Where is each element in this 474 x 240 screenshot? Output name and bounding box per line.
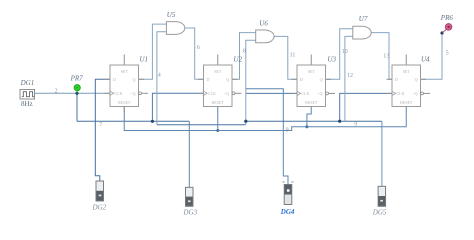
svg-text:SET: SET [121, 69, 129, 74]
wire U6 out to U3 D [274, 36, 297, 79]
svg-text:11: 11 [290, 52, 296, 58]
wire DG4 branch [246, 89, 288, 185]
svg-text:DG2: DG2 [92, 204, 107, 212]
svg-text:U6: U6 [259, 19, 268, 27]
svg-text:4: 4 [158, 73, 161, 79]
svg-text:CLK: CLK [208, 91, 216, 96]
svg-text:U2: U2 [234, 56, 243, 64]
wire U4 clock tap [340, 93, 392, 121]
svg-text:~Q: ~Q [224, 91, 229, 96]
wire U4 Q riser to PR6 [421, 33, 443, 79]
svg-text:RESET: RESET [118, 100, 131, 105]
svg-text:Q: Q [415, 77, 418, 82]
svg-text:~Q: ~Q [130, 91, 135, 96]
svg-text:D: D [207, 77, 210, 82]
svg-text:DG5: DG5 [372, 209, 387, 217]
wire PR7 drop [76, 93, 78, 121]
svg-text:CLK: CLK [302, 91, 310, 96]
wire U5 out to U2 D [185, 28, 204, 79]
svg-text:PR6: PR6 [440, 14, 454, 22]
junction node A2 start [244, 120, 247, 123]
wire bus B (reset bus) [124, 107, 406, 131]
svg-text:CLK: CLK [397, 91, 405, 96]
svg-text:6: 6 [197, 45, 200, 51]
svg-text:CLK: CLK [115, 91, 123, 96]
svg-text:D: D [113, 77, 116, 82]
svg-text:~Q: ~Q [412, 91, 417, 96]
svg-text:DG4: DG4 [280, 208, 295, 216]
op D flip-flop U1 [105, 55, 149, 113]
svg-text:Q: Q [133, 77, 136, 82]
svg-text:RESET: RESET [212, 100, 225, 105]
svg-text:DG1: DG1 [20, 79, 35, 87]
wire clock main DG1 to U1 CLK [35, 92, 111, 94]
wire U2 reset stub [217, 107, 219, 131]
wire U7 in2 riser [345, 36, 353, 121]
probe PR7 [70, 75, 84, 93]
svg-text:U4: U4 [421, 56, 430, 64]
indicator DG3 [183, 187, 198, 216]
wire U7 out to U4 D [371, 33, 392, 80]
junction node clock tap U2 [151, 120, 154, 123]
gate AND U6 [256, 19, 274, 43]
svg-text:~Q: ~Q [317, 91, 322, 96]
svg-text:DG3: DG3 [183, 209, 198, 217]
svg-text:D: D [395, 77, 398, 82]
svg-text:U7: U7 [359, 15, 368, 23]
indicator DG5 [372, 186, 387, 216]
junction node clock tap U4 [338, 120, 341, 123]
svg-text:2: 2 [55, 89, 58, 95]
probe PR6 [440, 14, 454, 33]
wire U1 Q riser to U5 in1 [139, 24, 167, 79]
svg-text:PR7: PR7 [70, 75, 84, 83]
wire U2 clock tap [152, 93, 203, 121]
svg-text:U1: U1 [140, 56, 149, 64]
svg-text:SET: SET [308, 69, 316, 74]
wire DG3 drop [188, 121, 190, 187]
wire bus A2 [246, 120, 382, 122]
svg-text:12: 12 [347, 73, 353, 79]
svg-text:7: 7 [99, 123, 102, 129]
junction node PR6 [440, 31, 443, 34]
wire U3 Q riser to U7 in1 [326, 29, 353, 80]
svg-text:8Hz: 8Hz [21, 100, 33, 108]
clock source DG1 [20, 79, 35, 108]
svg-text:Q: Q [226, 77, 229, 82]
gate AND U5 [166, 11, 184, 35]
gate AND U7 [353, 15, 371, 39]
svg-text:D: D [300, 77, 303, 82]
junction node U2 reset [216, 129, 219, 132]
svg-text:U3: U3 [328, 56, 337, 64]
svg-text:5: 5 [446, 50, 449, 56]
wire U3 clock line [246, 92, 297, 94]
wire U5 in2 riser [157, 32, 167, 125]
junction node U3 reset [305, 125, 308, 128]
svg-text:RESET: RESET [305, 100, 318, 105]
wire U6 in2 riser [246, 40, 256, 125]
wire bus C [157, 124, 246, 126]
svg-text:13: 13 [383, 54, 389, 60]
indicator DG4 (selected) [280, 182, 295, 216]
svg-text:SET: SET [214, 69, 222, 74]
junction node PR7 [75, 92, 78, 95]
wire U2 Q riser to U6 in1 [232, 33, 256, 80]
wire bus A1 (clock bus) [77, 120, 189, 122]
wire U1 D net to DG2 [95, 79, 110, 181]
svg-text:SET: SET [403, 69, 411, 74]
indicator DG2 [92, 181, 107, 212]
op D flip-flop U4 [387, 55, 431, 107]
wire U3 reset stub [307, 107, 311, 127]
svg-text:U5: U5 [167, 11, 176, 19]
svg-text:Q: Q [320, 77, 323, 82]
op D flip-flop U2 [198, 55, 243, 107]
op D flip-flop U3 [292, 55, 337, 107]
wire DG5 drop [381, 121, 383, 186]
svg-text:RESET: RESET [400, 100, 413, 105]
